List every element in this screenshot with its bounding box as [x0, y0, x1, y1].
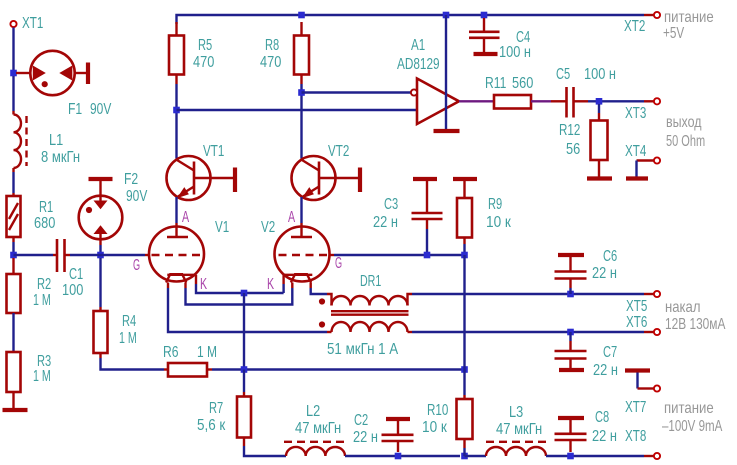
- terminal XT2: [654, 12, 660, 18]
- capacitor C3: [412, 181, 443, 229]
- wire XT2 stub: [644, 14, 654, 16]
- inductor L1: [14, 111, 27, 172]
- wire R1 to G node: [12, 242, 14, 255]
- svg-text:470: 470: [260, 54, 281, 71]
- resistor R7: [237, 370, 251, 447]
- node VT2 input junction: [298, 89, 305, 96]
- surge arrester F1: [16, 51, 86, 95]
- ground bar VT1 base: [233, 168, 237, 193]
- svg-text:22 н: 22 н: [593, 362, 618, 379]
- svg-text:накал: накал: [665, 299, 701, 316]
- varistor R1: [7, 193, 21, 242]
- wire DR1 upper to XT5: [412, 293, 644, 295]
- resistor R11: [494, 95, 531, 109]
- wire V2 cathode lead: [282, 284, 284, 293]
- wire R8 to VT2: [300, 84, 302, 159]
- wire XT7: [638, 373, 654, 389]
- svg-text:C2: C2: [354, 412, 368, 429]
- inductor L2: [284, 442, 345, 456]
- svg-text:F1: F1: [68, 101, 82, 118]
- wire R6 to R10 column: [212, 368, 465, 370]
- ground bar C6 top: [558, 253, 584, 257]
- wire opamp output: [459, 100, 494, 102]
- wire L3 to C8: [546, 455, 644, 457]
- terminal XT5: [654, 291, 660, 297]
- wire top rail: [177, 15, 645, 24]
- wire DR1 lower to XT6: [412, 331, 644, 333]
- svg-text:XT5: XT5: [626, 298, 647, 315]
- wire R9 node down: [463, 255, 465, 370]
- wire XT4: [637, 161, 654, 177]
- terminal XT4: [654, 157, 660, 163]
- svg-text:C3: C3: [384, 196, 398, 213]
- op-amp A1: [411, 79, 459, 125]
- resistor R10: [457, 370, 473, 449]
- svg-text:R9: R9: [488, 196, 502, 213]
- svg-text:V1: V1: [215, 219, 229, 236]
- ground bar R9 top: [453, 177, 477, 181]
- terminal XT7: [654, 385, 660, 391]
- svg-text:51 мкГн 1 А: 51 мкГн 1 А: [327, 341, 398, 358]
- wire V2 grid right: [330, 254, 335, 256]
- svg-text:12В 130мА: 12В 130мА: [665, 316, 726, 333]
- transistor VT2: [292, 156, 359, 200]
- ground bar VT2 base: [358, 168, 362, 193]
- capacitor C8: [555, 420, 587, 452]
- svg-text:C1: C1: [69, 266, 83, 283]
- resistor R5: [169, 22, 184, 84]
- svg-text:R6: R6: [163, 344, 179, 361]
- svg-text:R2: R2: [37, 276, 51, 293]
- terminal XT3: [654, 98, 660, 104]
- svg-text:10 к: 10 к: [422, 419, 448, 436]
- svg-text:R11: R11: [485, 75, 506, 92]
- resistor R3: [7, 352, 21, 408]
- ground bar opamp: [434, 129, 460, 133]
- svg-text:R5: R5: [198, 37, 212, 54]
- node XT3 junction: [596, 98, 603, 105]
- terminal XT6: [654, 329, 660, 335]
- svg-text:470: 470: [193, 54, 214, 71]
- wire XT5 stub: [644, 293, 654, 295]
- svg-text:C8: C8: [595, 409, 609, 426]
- svg-text:V2: V2: [261, 219, 275, 236]
- wire V1 cathode to K node: [196, 284, 284, 293]
- wire heater interconnect: [186, 288, 293, 305]
- node R7 junction: [241, 366, 248, 373]
- node VT1 input junction: [173, 107, 180, 114]
- wire XT3 stub: [644, 100, 654, 102]
- svg-text:A: A: [288, 209, 295, 226]
- svg-text:90V: 90V: [126, 188, 148, 205]
- svg-text:L2: L2: [306, 403, 320, 420]
- svg-text:100 н: 100 н: [499, 44, 531, 61]
- wire R9 to G line: [463, 244, 465, 255]
- wire XT8 stub: [644, 455, 654, 457]
- wire bottom line left: [244, 446, 286, 456]
- node R9 junction: [461, 252, 468, 259]
- svg-text:10 к: 10 к: [486, 214, 512, 231]
- svg-text:1 М: 1 М: [197, 344, 217, 361]
- node junction rail R8: [298, 12, 305, 19]
- svg-text:50 Ohm: 50 Ohm: [666, 133, 705, 150]
- svg-text:+5V: +5V: [663, 25, 684, 42]
- node F1 junction: [10, 70, 17, 77]
- svg-text:A1: A1: [411, 37, 425, 54]
- svg-text:R4: R4: [122, 313, 136, 330]
- svg-text:A: A: [182, 209, 189, 226]
- svg-text:F2: F2: [124, 171, 138, 188]
- node C8 junction: [567, 453, 574, 460]
- svg-text:G: G: [133, 257, 140, 274]
- node cathode junction: [241, 290, 248, 297]
- svg-text:питание: питание: [664, 9, 714, 26]
- wire XT6 stub: [644, 331, 654, 333]
- node R10 junction: [461, 366, 468, 373]
- node C2 junction: [395, 453, 402, 460]
- svg-text:R7: R7: [209, 400, 223, 417]
- wire V2 heater to DR1 upper: [311, 288, 327, 294]
- wire opamp lower input: [177, 109, 418, 111]
- resistor R12: [591, 104, 608, 177]
- svg-text:22 н: 22 н: [373, 214, 398, 231]
- capacitor C6: [555, 257, 587, 288]
- svg-text:DR1: DR1: [360, 273, 381, 290]
- wire left column down to L1: [12, 76, 14, 111]
- wire K node down: [243, 293, 245, 370]
- ground bar C4: [474, 52, 498, 56]
- terminal XT1: [10, 21, 16, 27]
- capacitor C2: [382, 421, 414, 452]
- wire C3 to G line: [426, 229, 428, 255]
- capacitor C4: [469, 18, 500, 52]
- choke DR1: [319, 294, 412, 332]
- svg-text:22 н: 22 н: [592, 428, 617, 445]
- svg-text:100 н: 100 н: [584, 66, 616, 83]
- svg-text:R12: R12: [559, 122, 580, 139]
- ground bar R12: [587, 176, 612, 180]
- svg-text:1 М: 1 М: [119, 330, 137, 347]
- svg-text:8 мкГн: 8 мкГн: [41, 149, 80, 166]
- svg-text:56: 56: [566, 141, 580, 158]
- ground bar C7 bottom: [559, 368, 584, 372]
- resistor R4: [94, 258, 108, 358]
- svg-text:R10: R10: [427, 402, 448, 419]
- node C7 junction: [567, 329, 574, 336]
- capacitor C1: [53, 239, 70, 272]
- svg-text:XT4: XT4: [625, 143, 646, 160]
- ground bar XT7: [625, 368, 650, 372]
- svg-text:R8: R8: [265, 37, 279, 54]
- svg-text:VT2: VT2: [328, 143, 349, 160]
- node R10 bottom junction: [461, 453, 468, 460]
- svg-text:XT2: XT2: [624, 18, 645, 35]
- svg-text:47 мкГн: 47 мкГн: [496, 421, 542, 438]
- wire R10 to L3: [463, 448, 465, 456]
- ground bar R3: [3, 408, 28, 412]
- ground bar C2 top: [386, 417, 410, 421]
- ground bar F1: [86, 63, 90, 85]
- node junction rail C4: [481, 12, 488, 19]
- svg-text:5,6 к: 5,6 к: [197, 417, 226, 434]
- wire C1 to F2 node: [70, 254, 101, 256]
- svg-text:K: K: [200, 276, 207, 293]
- svg-text:C7: C7: [603, 344, 617, 361]
- resistor R9: [457, 181, 472, 244]
- wire opamp upper input: [302, 91, 412, 93]
- inductor L3: [486, 442, 546, 456]
- svg-text:K: K: [267, 276, 274, 293]
- svg-text:VT1: VT1: [203, 143, 224, 160]
- svg-text:1 М: 1 М: [33, 368, 51, 385]
- svg-text:560: 560: [512, 75, 533, 92]
- wire node to V1 grid: [101, 254, 146, 256]
- svg-text:выход: выход: [666, 114, 702, 131]
- node F2/R4 junction: [97, 252, 104, 259]
- wire V1 heater to DR1 lower: [168, 288, 327, 332]
- ground bar C3 top: [413, 177, 437, 181]
- svg-text:47 мкГн: 47 мкГн: [295, 420, 341, 437]
- svg-text:R1: R1: [39, 199, 53, 216]
- svg-text:–100V 9mA: –100V 9mA: [662, 418, 723, 435]
- node left G junction: [10, 252, 17, 259]
- resistor R2: [7, 258, 21, 352]
- triode V2: [275, 223, 330, 288]
- ground bar C8 top: [558, 416, 584, 420]
- svg-text:22 н: 22 н: [592, 265, 617, 282]
- wire L2 to C2: [345, 455, 460, 457]
- triode V1: [149, 223, 204, 288]
- node C6 junction: [567, 291, 574, 298]
- svg-text:L1: L1: [49, 132, 63, 149]
- wire XT1 to F1 node: [12, 28, 14, 74]
- wire opamp V+ down: [445, 15, 447, 129]
- wire G line left: [14, 254, 54, 256]
- ground bar F2 top: [89, 177, 113, 181]
- resistor R8: [294, 22, 309, 84]
- svg-text:питание: питание: [664, 400, 714, 417]
- surge arrester F2: [79, 181, 123, 245]
- terminal XT8: [654, 453, 660, 459]
- svg-text:XT8: XT8: [625, 428, 646, 445]
- wire VT2 emitter to V2 anode: [300, 197, 302, 223]
- svg-text:XT1: XT1: [22, 15, 43, 32]
- node C3 junction: [424, 252, 431, 259]
- capacitor C5: [567, 87, 589, 118]
- wire L1 to R1: [12, 172, 14, 193]
- svg-text:C6: C6: [603, 248, 617, 265]
- svg-text:AD8129: AD8129: [397, 56, 440, 73]
- svg-text:90V: 90V: [90, 101, 112, 118]
- svg-text:22 н: 22 н: [353, 429, 378, 446]
- wire VT1 emitter to V1 anode: [175, 197, 177, 223]
- node junction rail opamp: [443, 12, 450, 19]
- svg-text:XT3: XT3: [625, 105, 646, 122]
- svg-text:G: G: [335, 255, 342, 272]
- capacitor C7: [555, 332, 587, 368]
- svg-text:L3: L3: [509, 404, 523, 421]
- ground bar XT4: [626, 176, 648, 180]
- wire R11 to C5: [531, 100, 551, 102]
- transistor VT1: [167, 156, 234, 200]
- wire R4 to R6: [101, 358, 165, 370]
- svg-text:1 М: 1 М: [33, 292, 51, 309]
- svg-text:XT7: XT7: [625, 399, 646, 416]
- wire F2 to node: [99, 245, 101, 255]
- resistor R6: [164, 363, 212, 377]
- svg-text:XT6: XT6: [626, 314, 647, 331]
- wire C5 to XT3 node: [588, 100, 644, 102]
- wire R5 to VT1: [175, 84, 177, 159]
- svg-text:C5: C5: [556, 66, 570, 83]
- svg-text:680: 680: [34, 215, 55, 232]
- svg-text:100: 100: [62, 282, 83, 299]
